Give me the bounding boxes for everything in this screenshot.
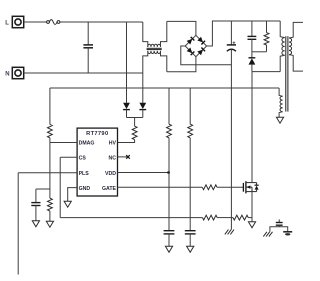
label N <box>5 72 9 78</box>
svg-text:CS: CS <box>79 155 87 161</box>
wire bridge positive to DC+ rail <box>207 21 281 46</box>
bridge diode D3 (bottom-left) <box>187 47 195 55</box>
capacitor CX1 (X-cap across line) <box>83 22 93 73</box>
resistor R3 (aux to DMAG) <box>48 88 53 143</box>
label RT7790 <box>86 131 108 137</box>
ground (arrow) below R4 <box>46 221 53 227</box>
wire PLS pin <box>18 172 77 174</box>
capacitor C1 (bulk, polarized) <box>227 21 236 51</box>
wire gate to Q1 <box>217 186 243 188</box>
label + (C1 polarity) <box>233 41 236 44</box>
op-amp U1 RT7790 controller box <box>77 128 117 196</box>
wire VDD pin <box>118 172 170 174</box>
wire R2 to HV pin <box>118 140 135 143</box>
transformer T1 secondary winding <box>289 22 303 71</box>
label L <box>5 21 9 27</box>
bridge rectifier BD1 outline <box>185 35 206 56</box>
wire clamp RC join <box>252 51 267 53</box>
wire choke to bridge AC bottom <box>167 57 196 72</box>
pin label NC <box>109 155 117 161</box>
bridge diode D4 (bottom-right) <box>197 48 205 56</box>
fuse F1 <box>47 20 60 25</box>
resistor R5 (aux to VDD) <box>167 88 172 231</box>
svg-text:HV: HV <box>109 141 117 147</box>
ground (hatched) left of Y-cap <box>263 232 272 237</box>
pin label HV <box>109 141 117 147</box>
common-mode choke LF1 <box>143 21 167 73</box>
wire L line right <box>60 21 143 23</box>
wire DMAG pin <box>50 142 77 144</box>
wire L line left <box>24 21 47 23</box>
diode D5 (clamp) <box>249 52 256 72</box>
wire L to D6 <box>126 22 128 103</box>
wire GND pin <box>68 188 77 202</box>
wire auxiliary rail <box>50 87 279 89</box>
svg-text:RT7790: RT7790 <box>86 131 108 137</box>
wire N line <box>24 72 143 74</box>
diode D6 (from L) <box>123 103 130 118</box>
resistor R9 (current sense) <box>233 215 248 220</box>
wire choke to bridge AC top <box>167 21 196 35</box>
node VDD junction <box>167 171 170 174</box>
connector J1 (Line input) <box>12 16 23 27</box>
wire D6/D7 junction bracket <box>127 118 143 127</box>
bridge diode D2 (top-right) <box>197 37 205 45</box>
wire PLS drop (off-page) <box>17 173 19 275</box>
capacitor C2 (clamp) <box>248 21 257 52</box>
ground (aux winding return arrow) <box>276 117 283 123</box>
diode D7 (from N) <box>139 103 146 118</box>
transformer T1 primary winding <box>280 21 285 72</box>
pin label GATE <box>102 186 117 192</box>
wire Y-cap bar <box>270 227 288 232</box>
wire GATE pin <box>118 186 203 188</box>
ground (arrow) at GND pin <box>64 201 71 207</box>
capacitor C3 (DMAG filter) <box>31 203 40 221</box>
wire switch node horizontal <box>252 71 280 73</box>
pin label CS <box>79 155 87 161</box>
wire N to D7 <box>142 73 144 103</box>
wire CS pin <box>60 156 77 158</box>
pin label DMAG <box>79 141 95 147</box>
resistor R2 (HV startup) <box>132 126 137 139</box>
pin label PLS <box>79 171 90 177</box>
wire DMAG node down <box>49 143 51 199</box>
ground (power, hatched) at C1/sense <box>225 230 234 235</box>
ground (arrow) below C5 <box>187 246 194 252</box>
connector J2 (Neutral input) <box>12 67 23 78</box>
wire NC pin <box>118 156 128 158</box>
bridge diode D1 (top-left) <box>187 37 195 45</box>
wire Q1 source down <box>251 192 253 222</box>
svg-text:N: N <box>5 72 9 78</box>
wire R9 to Q1 source <box>248 217 252 219</box>
ground (arrow) below C4 <box>165 246 172 252</box>
resistor R8 (CS filter) <box>203 215 218 220</box>
ground (arrow) at Q1 source <box>248 222 255 228</box>
capacitor C4 (VDD) <box>164 231 175 247</box>
no-connect X mark <box>126 155 130 159</box>
svg-text:L: L <box>5 21 9 27</box>
transformer T1 core <box>286 36 288 111</box>
svg-text:PLS: PLS <box>79 171 90 177</box>
resistor R7 (gate) <box>202 185 217 190</box>
capacitor C6 (Y-cap) <box>276 219 283 226</box>
wire R8 to ground node <box>217 217 233 219</box>
wire CS sense line <box>60 217 202 219</box>
wire C1 negative down <box>230 50 232 230</box>
transistor Q1 (power MOSFET) <box>243 181 258 193</box>
svg-text:NC: NC <box>109 155 117 161</box>
svg-text:GATE: GATE <box>102 186 117 192</box>
pin label VDD <box>105 171 116 177</box>
pin label GND <box>79 186 91 192</box>
svg-text:VDD: VDD <box>105 171 116 177</box>
wire Q1 drain to switch node <box>251 72 253 183</box>
wire bridge negative rail <box>181 46 232 65</box>
ground (earth) right of Y-cap <box>283 232 292 236</box>
svg-text:DMAG: DMAG <box>79 141 95 147</box>
ground (arrow) below C3 <box>32 221 39 227</box>
wire CS drop <box>59 157 61 217</box>
resistor R6 (aux RC) <box>188 88 193 231</box>
resistor R1 (clamp) <box>264 21 269 52</box>
transformer T1 auxiliary winding <box>279 88 283 117</box>
wire DMAG filter branch <box>36 189 50 203</box>
resistor R4 (DMAG lower divider) <box>48 198 53 221</box>
svg-text:GND: GND <box>79 186 91 192</box>
capacitor C5 (aux RC) <box>185 231 196 247</box>
